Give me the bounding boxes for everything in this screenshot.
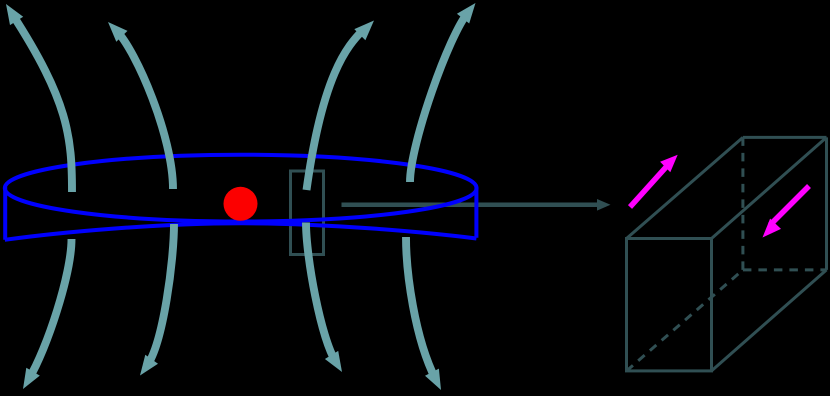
pointer arrowhead bbox=[597, 199, 611, 211]
disk bottom rim curve bbox=[5, 223, 477, 240]
field line B4 bottom arrowhead bbox=[425, 369, 441, 390]
magnetization current arrow on left face (up-right) bbox=[630, 166, 667, 207]
3D box hidden back-bottom edge (dashed) bbox=[743, 268, 827, 271]
sample box outline on disk bbox=[291, 171, 324, 255]
3D box hidden bottom-left receding edge (dashed) bbox=[627, 270, 743, 371]
field line B3 top arrowhead bbox=[354, 21, 374, 41]
field line B3 lower segment bbox=[306, 223, 336, 362]
3D box back-right vertical edge bbox=[825, 137, 828, 270]
field line B2 bottom arrowhead bbox=[140, 355, 158, 376]
field line B1 upper-left segment bbox=[12, 14, 72, 192]
3D box bottom-right receding edge bbox=[712, 270, 827, 371]
3D box back-top edge bbox=[743, 136, 827, 139]
field line B4 upper segment bbox=[410, 12, 468, 182]
field line B1 top arrowhead bbox=[6, 4, 23, 25]
disk left edge bbox=[3, 187, 7, 240]
3D box top-left receding edge bbox=[627, 137, 743, 238]
field line B1 lower-left segment bbox=[29, 239, 72, 379]
field line B4 top arrowhead bbox=[457, 3, 476, 24]
3D box top-right receding edge bbox=[712, 137, 827, 238]
magnetized disk top ellipse bbox=[5, 155, 477, 222]
field line B3 bottom arrowhead bbox=[325, 351, 342, 372]
3D box hidden back-left vertical edge (dashed) bbox=[741, 137, 744, 270]
field line B2 upper segment bbox=[116, 31, 173, 189]
3D box front face bbox=[627, 239, 712, 371]
disk right edge bbox=[474, 187, 478, 238]
red dot (dipole at disk center) bbox=[224, 187, 258, 221]
field line B3 upper segment bbox=[307, 30, 364, 191]
magnetization current arrow on right face (down-left) bbox=[770, 186, 809, 225]
field line B4 lower segment bbox=[406, 237, 436, 379]
pointer arrow line from sample box to 3D box bbox=[342, 203, 600, 208]
field line B2 lower segment bbox=[147, 224, 174, 366]
field line B1 bottom arrowhead bbox=[23, 368, 40, 389]
field line B2 top arrowhead bbox=[108, 22, 128, 42]
